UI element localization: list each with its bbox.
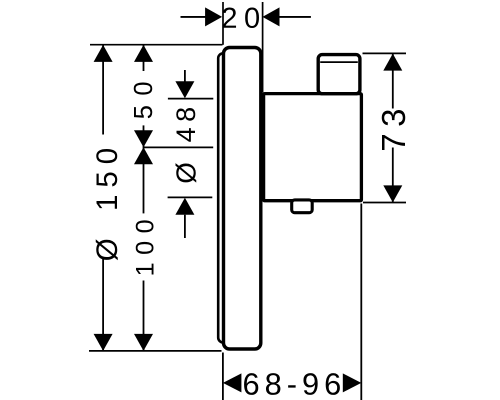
dimension line 73 (x=392.8) xyxy=(392,54,394,109)
dimension line 50/100 (x=143.5) xyxy=(143,46,145,72)
arrow pointing left at x=222.9 xyxy=(223,373,242,392)
arrow down 73 xyxy=(383,185,402,202)
extension line right of "20" (x=262.6, runs from top down to body top corner) xyxy=(262,2,264,93)
73 bottom extension line xyxy=(363,202,406,204)
dimension line Ø150 (x=103.1) xyxy=(102,46,104,135)
arrow pointing right at x=361.3 xyxy=(343,373,362,392)
svg-text:100: 100 xyxy=(132,212,160,277)
svg-text:20: 20 xyxy=(221,3,266,35)
arrow up Ø150 xyxy=(94,45,113,62)
svg-text:50: 50 xyxy=(130,72,158,119)
small tab under body xyxy=(292,200,313,213)
68-96 left extension line xyxy=(222,353,224,400)
arrowhead pointing left at plate right xyxy=(263,7,280,26)
escutcheon front plate (thick rounded rect) xyxy=(224,48,261,350)
top extension line at plate top (y=44.7) xyxy=(90,44,223,46)
arrow up 50 xyxy=(134,45,153,62)
svg-text:Ø 150: Ø 150 xyxy=(91,141,124,261)
svg-text:68-96: 68-96 xyxy=(243,367,347,400)
escutcheon side profile (thin rounded rect behind front plate) xyxy=(218,53,240,342)
arrow up 73 xyxy=(383,54,402,71)
knob inner detail line xyxy=(320,61,358,63)
Ø48 upper tail + arrow pointing down xyxy=(184,70,186,82)
extension line left of "20" (x=223) xyxy=(222,2,224,45)
svg-text:48: 48 xyxy=(171,101,201,142)
knob on top of body xyxy=(318,55,360,94)
Ø48 top extension line xyxy=(168,98,213,100)
svg-text:73: 73 xyxy=(375,102,412,152)
73 top extension line xyxy=(363,52,407,54)
arrow down Ø150 xyxy=(94,334,113,351)
arrowhead pointing right at plate left xyxy=(205,7,222,26)
arrow down 100 xyxy=(134,334,153,351)
centerline extension (y=147.35) xyxy=(144,146,214,148)
Ø48 bottom extension line xyxy=(168,196,213,198)
68-96 right extension line xyxy=(360,204,362,400)
valve body xyxy=(264,94,362,201)
hourglass double arrow at centerline xyxy=(134,130,153,147)
svg-text:Ø: Ø xyxy=(171,162,202,183)
bottom extension line at plate bottom (y=350.9) xyxy=(89,350,222,352)
dimension "20" line with tails xyxy=(181,16,206,18)
Ø48 lower arrow pointing up + tail xyxy=(175,198,194,215)
